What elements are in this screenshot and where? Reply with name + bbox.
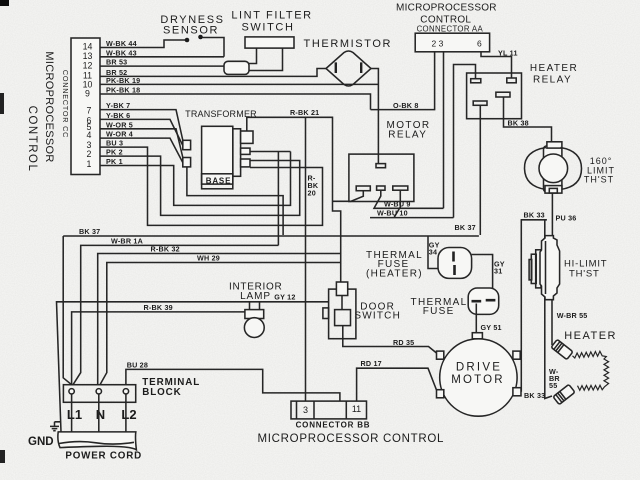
wire BU 28 terminal block to connector BB: [126, 369, 340, 401]
wire sensor return to W-BK 43: [203, 38, 225, 57]
wire L1 lead to power cord: [71, 394, 73, 432]
svg-text:160°: 160°: [590, 156, 613, 166]
wire motor relay t2 to W-BU 9: [374, 191, 444, 209]
heater relay terminal lower-left: [473, 101, 487, 105]
thermistor body: [326, 51, 371, 86]
svg-text:BU 28: BU 28: [127, 360, 148, 369]
svg-text:RD 17: RD 17: [361, 359, 382, 368]
svg-text:(HEATER): (HEATER): [366, 269, 423, 280]
wire W-OR 4 pin 4 to transformer: [100, 138, 183, 163]
wire BR 52 pin 11 to thermistor: [100, 69, 326, 77]
svg-text:GY 12: GY 12: [274, 293, 295, 302]
wire WH 29 bus: [100, 263, 341, 385]
connector BB box: [291, 401, 367, 419]
svg-text:BLOCK: BLOCK: [142, 387, 181, 398]
svg-text:SENSOR: SENSOR: [163, 25, 219, 37]
thermal fuse element bars: [472, 300, 496, 301]
wire W-OR 5 pin 5 to transformer: [100, 129, 183, 160]
hi-limit thermostat stack plate large: [536, 250, 541, 288]
svg-text:CONNECTOR AA: CONNECTOR AA: [417, 25, 484, 34]
wire W-BK 43 pin 13: [100, 56, 224, 58]
transformer base box: [202, 174, 233, 189]
svg-text:TH'ST: TH'ST: [569, 268, 600, 279]
svg-text:CONNECTOR BB: CONNECTOR BB: [296, 421, 371, 430]
160 limit thermostat bottom nub: [549, 188, 557, 193]
scan artifact top-left corner: [0, 0, 9, 6]
drive motor left-top tab: [437, 351, 444, 359]
svg-text:4: 4: [87, 130, 92, 140]
door switch inner contact box: [335, 310, 351, 326]
wire lamp feed bus to door switch: [57, 302, 329, 432]
svg-text:BASE: BASE: [206, 177, 231, 186]
svg-text:BK 37: BK 37: [455, 223, 476, 232]
wire PK 1 pin 1 loop under transformer: [100, 152, 291, 206]
svg-text:FUSE: FUSE: [423, 306, 455, 317]
svg-text:WH 29: WH 29: [197, 254, 220, 263]
heater relay terminal top-left: [471, 79, 481, 83]
wire GY 34 from BK 37 to heater thermal fuse: [428, 236, 438, 269]
heater relay terminal top-right: [507, 78, 516, 83]
interior lamp cap: [245, 310, 264, 319]
thermal fuse body: [468, 288, 499, 314]
wire BK 37 long bus: [63, 236, 479, 385]
transformer pin right 2: [241, 148, 250, 154]
svg-text:LINT FILTER: LINT FILTER: [231, 10, 312, 22]
door switch plunger top: [336, 282, 347, 296]
svg-text:W-BK 43: W-BK 43: [106, 48, 137, 57]
wire W-BR 55 hi-limit to heater: [551, 300, 553, 345]
svg-text:SWITCH: SWITCH: [354, 311, 401, 322]
wire BK 33: [521, 220, 552, 399]
hi-limit thermostat stack plate mid: [531, 254, 536, 283]
drive motor right-top tab: [513, 351, 520, 359]
svg-text:W-BR 55: W-BR 55: [557, 311, 588, 320]
wire RD 35 door switch to drive motor: [343, 339, 437, 353]
svg-text:BK 38: BK 38: [508, 118, 529, 127]
wire R-BK 20 vertical to connector BB pin 3: [305, 117, 307, 401]
svg-text:9: 9: [85, 89, 90, 99]
svg-text:MICROPROCESSOR: MICROPROCESSOR: [43, 51, 55, 162]
terminal block screw N: [96, 389, 101, 394]
motor relay coil terminal top: [376, 164, 386, 168]
drive motor left-bottom tab: [437, 390, 444, 398]
door switch internal stem: [341, 296, 344, 339]
wire L2 lead to power cord: [125, 394, 127, 432]
terminal block box: [63, 385, 135, 403]
wire GY 51 thermal fuse to drive motor: [475, 304, 477, 333]
wire RD 17 connector BB to drive motor: [357, 368, 437, 401]
160 limit thermostat bottom tab: [545, 186, 562, 194]
svg-text:L1: L1: [67, 407, 82, 422]
wire PK 2 pin 2 loop under transformer: [100, 156, 300, 215]
power cord body: [58, 432, 137, 450]
svg-text:R-BK 32: R-BK 32: [151, 245, 180, 254]
svg-text:W-BR 1A: W-BR 1A: [111, 237, 143, 246]
svg-text:2 3: 2 3: [432, 39, 444, 49]
svg-text:N: N: [96, 407, 105, 422]
wire PK-BK 19 pin 10 to thermistor node: [100, 83, 378, 85]
wire R-BK 32 bus: [98, 254, 341, 385]
svg-text:BK 37: BK 37: [79, 227, 100, 236]
interior lamp stubs: [250, 302, 260, 310]
heater relay box: [467, 73, 522, 119]
drive motor right-bottom tab: [513, 388, 521, 396]
wire heater relay lower-left to BK 37: [479, 105, 481, 235]
svg-text:34: 34: [429, 248, 437, 257]
door switch left tab: [323, 308, 329, 319]
svg-text:BR 53: BR 53: [106, 58, 127, 67]
transformer pin right 3: [241, 159, 250, 167]
scan artifact left edge upper: [0, 93, 4, 114]
hi-limit thermostat body: [540, 236, 560, 300]
heater element zigzag: [573, 351, 609, 390]
svg-text:POWER CORD: POWER CORD: [65, 450, 142, 461]
wire AA pin 3 down to W-BU 9: [443, 52, 445, 209]
svg-text:PU 36: PU 36: [556, 214, 577, 223]
connector BB cell dividers: [297, 401, 347, 419]
thermistor pin bars: [336, 62, 361, 73]
scan artifact left edge lower: [0, 450, 5, 463]
terminal block screw L2: [123, 389, 128, 394]
svg-text:GND: GND: [28, 436, 54, 448]
svg-text:31: 31: [494, 267, 502, 276]
transformer pin left 2: [183, 158, 191, 167]
svg-text:MICROPROCESSOR: MICROPROCESSOR: [396, 3, 497, 14]
svg-text:6: 6: [477, 39, 482, 49]
svg-text:TRANSFORMER: TRANSFORMER: [185, 109, 257, 119]
wire connector to switch leg 2: [249, 48, 283, 70]
svg-text:L2: L2: [121, 407, 136, 422]
motor relay terminal 2: [377, 186, 385, 190]
wire motor relay t1 to lamp/door bus: [333, 191, 364, 202]
svg-text:TH'ST: TH'ST: [584, 175, 614, 185]
lint filter switch box: [245, 37, 294, 48]
svg-text:THERMISTOR: THERMISTOR: [304, 38, 393, 50]
wire R-BK 21 transformer to door switch bus: [247, 117, 341, 282]
drive motor top terminal: [472, 333, 482, 339]
heater terminal lug 1: [551, 339, 573, 359]
wire PK-BK 18 pin 9: [100, 94, 371, 110]
wire PU 36 limit to hi-limit: [551, 193, 553, 236]
transformer right winding strip: [233, 129, 241, 177]
160 limit thermostat top tab: [547, 142, 562, 148]
heater relay terminal mid: [496, 92, 510, 97]
svg-text:MOTOR: MOTOR: [451, 374, 505, 386]
svg-text:20: 20: [308, 189, 316, 198]
wire BR 53 pin 12: [100, 65, 224, 67]
svg-text:RD 35: RD 35: [393, 338, 414, 347]
160 limit thermostat disc: [539, 154, 568, 183]
connector CC pin numbers: [83, 42, 93, 169]
wire thermistor right lead: [371, 69, 378, 164]
heater terminal lug 2: [553, 384, 575, 404]
svg-text:BK 33: BK 33: [524, 211, 545, 220]
wire Y-BK 6 pin 6 to transformer: [100, 119, 183, 146]
svg-text:GY 51: GY 51: [481, 323, 502, 332]
svg-text:55: 55: [549, 381, 557, 390]
wire heater relay top-left to W-BU 10 riser: [454, 65, 476, 218]
svg-text:LAMP: LAMP: [240, 291, 271, 302]
thermal fuse (heater) element bars: [454, 252, 455, 276]
svg-text:BK 33: BK 33: [524, 391, 545, 400]
svg-text:SWITCH: SWITCH: [242, 22, 295, 34]
wire transformer secondary to W-BR 1A riser: [250, 152, 291, 246]
wire W-BR 1A bus: [73, 245, 278, 384]
motor relay terminal 1: [356, 186, 370, 191]
svg-text:3: 3: [303, 405, 308, 415]
svg-text:W-BU 9: W-BU 9: [384, 200, 411, 209]
wire transformer base loop to BK 37: [187, 166, 283, 236]
svg-text:11: 11: [352, 404, 361, 414]
motor relay box: [349, 154, 414, 201]
svg-text:W-BK 44: W-BK 44: [106, 39, 137, 48]
svg-text:W-BU 10: W-BU 10: [377, 209, 408, 218]
svg-text:RELAY: RELAY: [388, 130, 427, 141]
160 limit thermostat bracket: [544, 146, 562, 192]
svg-text:HEATER: HEATER: [530, 63, 578, 74]
wire motor relay t3 to W-BU 10: [370, 191, 454, 218]
connector AA box: [415, 33, 489, 52]
inline connector (lint filter): [224, 61, 249, 74]
wire W-BK 44 pin 14: [100, 40, 185, 48]
drive motor body: [440, 339, 517, 416]
svg-text:YL 11: YL 11: [498, 48, 518, 57]
wire connector to switch leg 1: [249, 48, 257, 63]
svg-text:MICROPROCESSOR CONTROL: MICROPROCESSOR CONTROL: [258, 433, 445, 445]
power cord inner squiggle: [59, 442, 134, 445]
wire heater relay mid to BK 38: [504, 97, 552, 142]
wire R-BK 39: [72, 312, 245, 385]
hi-limit thermostat stack plate small: [529, 260, 532, 280]
wire N lead to power cord: [98, 394, 100, 432]
ground symbol: [50, 422, 60, 431]
svg-text:12: 12: [83, 60, 93, 70]
interior lamp bulb: [244, 318, 264, 338]
svg-text:2: 2: [87, 149, 92, 159]
terminal block screw L1: [69, 389, 74, 394]
hi-limit thermostat inner line: [545, 241, 547, 294]
svg-text:RELAY: RELAY: [533, 74, 572, 85]
wire Y-BK 7 pin 7 to transformer: [100, 110, 183, 143]
wire AA pin 6 YL 11 to heater relay: [481, 52, 512, 78]
motor relay terminal 3: [393, 186, 408, 190]
wire BU 3 pin 3 loop under transformer: [100, 147, 323, 225]
connector CC box: [71, 38, 100, 175]
svg-text:CONNECTOR CC: CONNECTOR CC: [61, 70, 70, 138]
160 limit thermostat right wing: [561, 148, 582, 190]
wire GY 31 heater fuse to thermal fuse: [472, 255, 493, 298]
160 limit thermostat left wing: [524, 148, 546, 190]
door switch outer box: [329, 289, 356, 339]
svg-text:7: 7: [87, 106, 92, 116]
thermal fuse (heater) body: [438, 248, 472, 279]
transformer pin right 1: [241, 131, 253, 143]
svg-text:CONTROL: CONTROL: [26, 106, 38, 173]
svg-text:1: 1: [87, 159, 92, 169]
svg-text:O-BK 8: O-BK 8: [393, 101, 419, 110]
svg-text:R-BK 39: R-BK 39: [144, 303, 173, 312]
wire AA pin 2 O-BK 8: [371, 52, 435, 110]
svg-text:HEATER: HEATER: [564, 330, 617, 342]
svg-text:R-BK 21: R-BK 21: [290, 108, 319, 117]
transformer main body: [202, 126, 233, 184]
svg-text:PK-BK 19: PK-BK 19: [106, 76, 140, 85]
svg-text:DRIVE: DRIVE: [456, 362, 502, 374]
transformer pin left 1: [183, 140, 191, 149]
dryness sensor contact dots: [185, 38, 190, 43]
